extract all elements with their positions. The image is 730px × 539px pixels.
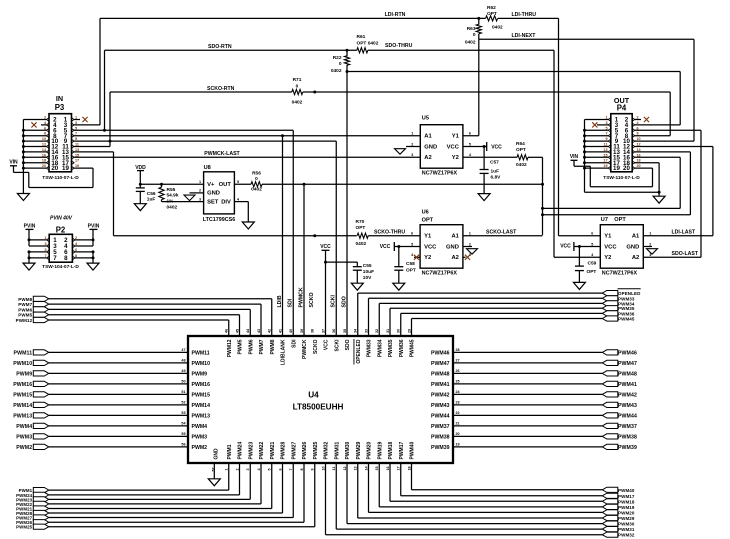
svg-text:R55: R55 — [167, 187, 176, 193]
svg-text:33: 33 — [364, 329, 368, 333]
svg-text:PWM18: PWM18 — [388, 442, 394, 460]
svg-text:0: 0 — [473, 32, 476, 38]
svg-text:12: 12 — [343, 466, 347, 470]
svg-text:PWM43: PWM43 — [618, 403, 637, 409]
svg-text:VIN: VIN — [9, 160, 18, 166]
svg-text:Y1: Y1 — [452, 134, 460, 140]
svg-text:37: 37 — [321, 329, 325, 333]
svg-text:PWM3: PWM3 — [16, 434, 32, 440]
svg-text:43: 43 — [257, 329, 261, 333]
svg-text:PWM10: PWM10 — [13, 361, 32, 367]
svg-text:PWM40: PWM40 — [618, 488, 635, 493]
svg-text:13: 13 — [354, 466, 358, 470]
svg-text:TSW-110-07-L-D: TSW-110-07-L-D — [42, 175, 79, 181]
svg-text:VIN: VIN — [570, 154, 579, 160]
svg-text:22: 22 — [456, 411, 460, 415]
svg-text:PWM13: PWM13 — [192, 413, 211, 419]
svg-text:Y1: Y1 — [604, 234, 612, 240]
svg-text:20: 20 — [456, 432, 460, 436]
svg-text:VCC: VCC — [324, 339, 330, 350]
svg-text:39: 39 — [300, 329, 304, 333]
svg-text:PWM5: PWM5 — [238, 339, 244, 354]
svg-text:GND: GND — [214, 448, 220, 460]
svg-text:PWM48: PWM48 — [618, 371, 637, 377]
svg-text:GND: GND — [424, 144, 437, 150]
svg-text:40: 40 — [289, 329, 293, 333]
svg-text:Y2: Y2 — [452, 155, 459, 161]
svg-text:10V: 10V — [363, 275, 372, 281]
svg-text:R63: R63 — [467, 26, 476, 32]
svg-text:PWM6: PWM6 — [248, 339, 254, 354]
svg-text:49: 49 — [181, 369, 185, 373]
svg-text:PWM3: PWM3 — [192, 434, 208, 440]
svg-text:0: 0 — [339, 61, 342, 67]
svg-text:PWM44: PWM44 — [431, 413, 450, 419]
svg-text:PWM20: PWM20 — [367, 442, 373, 460]
svg-text:1uF: 1uF — [491, 168, 500, 174]
svg-text:PWM38: PWM38 — [618, 434, 637, 440]
svg-text:16: 16 — [386, 466, 390, 470]
svg-text:29: 29 — [407, 329, 411, 333]
svg-text:10: 10 — [321, 466, 325, 470]
svg-text:0402: 0402 — [465, 40, 476, 46]
svg-text:17: 17 — [75, 159, 79, 163]
svg-text:A1: A1 — [451, 234, 459, 240]
svg-text:C57: C57 — [490, 160, 499, 166]
svg-text:PWM22: PWM22 — [259, 442, 265, 460]
svg-text:LDIBLANK: LDIBLANK — [281, 339, 287, 365]
svg-text:A2: A2 — [424, 155, 431, 161]
svg-text:SDO-RTN: SDO-RTN — [208, 44, 232, 50]
svg-text:32: 32 — [375, 329, 379, 333]
svg-text:19: 19 — [62, 165, 69, 172]
svg-text:IN: IN — [56, 94, 63, 103]
svg-text:PWM2: PWM2 — [192, 445, 208, 451]
svg-text:0: 0 — [255, 176, 258, 182]
svg-text:PWM15: PWM15 — [13, 392, 32, 398]
svg-text:PWM44: PWM44 — [618, 413, 637, 419]
svg-text:NC7WZ17P6X: NC7WZ17P6X — [422, 271, 458, 277]
svg-text:C58: C58 — [406, 261, 415, 267]
svg-text:VCC: VCC — [424, 244, 437, 250]
svg-text:2: 2 — [199, 189, 201, 193]
svg-text:23: 23 — [456, 401, 460, 405]
svg-text:PWM17: PWM17 — [618, 494, 635, 499]
svg-text:56: 56 — [181, 443, 185, 447]
svg-text:PWM23: PWM23 — [248, 442, 254, 460]
svg-text:U4: U4 — [308, 391, 319, 400]
svg-text:1: 1 — [411, 132, 413, 136]
svg-text:0402: 0402 — [356, 241, 367, 247]
svg-text:SDO-THRU: SDO-THRU — [385, 43, 413, 49]
svg-text:0402: 0402 — [331, 68, 342, 74]
svg-text:VCC: VCC — [320, 244, 331, 250]
svg-text:0402: 0402 — [492, 25, 503, 31]
svg-text:SCKI: SCKI — [334, 339, 340, 352]
svg-text:5: 5 — [268, 468, 272, 470]
svg-text:35: 35 — [343, 329, 347, 333]
svg-text:OPT: OPT — [587, 269, 597, 275]
svg-text:U6: U6 — [422, 210, 429, 216]
svg-text:53: 53 — [181, 411, 185, 415]
svg-text:NC7WZ17P6X: NC7WZ17P6X — [602, 271, 638, 277]
svg-text:PWM42: PWM42 — [431, 392, 450, 398]
svg-text:1: 1 — [225, 468, 229, 470]
svg-text:OPT: OPT — [516, 147, 526, 153]
svg-text:LTC1799CS6: LTC1799CS6 — [203, 217, 236, 223]
svg-text:NC7WZ17P6X: NC7WZ17P6X — [422, 171, 458, 177]
svg-text:2: 2 — [411, 142, 413, 146]
svg-text:PWM45: PWM45 — [410, 339, 416, 357]
svg-text:LT8500EUHH: LT8500EUHH — [293, 403, 344, 412]
svg-text:1: 1 — [649, 232, 651, 236]
svg-text:51: 51 — [181, 390, 185, 394]
svg-text:6: 6 — [469, 132, 471, 136]
svg-text:2: 2 — [469, 242, 471, 246]
svg-text:41: 41 — [278, 329, 282, 333]
svg-text:R62: R62 — [487, 5, 496, 11]
svg-text:PWM48: PWM48 — [431, 371, 450, 377]
svg-text:PWM30: PWM30 — [345, 442, 351, 460]
svg-text:PWM14: PWM14 — [192, 403, 211, 409]
svg-text:6: 6 — [591, 232, 593, 236]
svg-text:LDIB: LDIB — [277, 295, 283, 307]
svg-text:5: 5 — [411, 242, 413, 246]
svg-text:PWM16: PWM16 — [192, 382, 211, 388]
svg-text:VCC: VCC — [604, 244, 617, 250]
svg-text:PWM7: PWM7 — [259, 339, 265, 354]
svg-text:11: 11 — [332, 467, 336, 471]
svg-text:Y2: Y2 — [424, 255, 431, 261]
svg-text:R22: R22 — [333, 55, 342, 61]
svg-text:25: 25 — [456, 380, 460, 384]
svg-text:PWM37: PWM37 — [431, 424, 450, 430]
svg-text:8: 8 — [300, 468, 304, 470]
svg-text:15: 15 — [375, 466, 379, 470]
svg-text:2: 2 — [649, 242, 651, 246]
svg-text:20: 20 — [623, 165, 630, 172]
svg-text:18: 18 — [407, 466, 411, 470]
svg-text:1: 1 — [469, 232, 471, 236]
svg-text:PWM36: PWM36 — [399, 339, 405, 357]
svg-text:6: 6 — [411, 232, 413, 236]
svg-text:PWM8: PWM8 — [270, 339, 276, 354]
svg-text:17: 17 — [397, 466, 401, 470]
svg-text:VCC: VCC — [447, 144, 460, 150]
svg-text:10uF: 10uF — [363, 269, 374, 275]
svg-text:LDI-LAST: LDI-LAST — [672, 230, 696, 236]
svg-text:OPT: OPT — [406, 268, 416, 274]
svg-text:21: 21 — [456, 422, 460, 426]
svg-text:28: 28 — [456, 348, 460, 352]
svg-text:DIV: DIV — [221, 199, 231, 205]
svg-text:38: 38 — [311, 329, 315, 333]
svg-text:A2: A2 — [451, 255, 458, 261]
svg-text:R70: R70 — [356, 219, 365, 225]
svg-text:OPT: OPT — [422, 218, 434, 224]
svg-text:7: 7 — [53, 255, 57, 262]
svg-text:45: 45 — [235, 329, 239, 333]
svg-text:PWM5: PWM5 — [18, 313, 32, 318]
svg-text:PWM9: PWM9 — [192, 371, 208, 377]
svg-text:VCC: VCC — [380, 244, 391, 250]
svg-text:PWM17: PWM17 — [399, 442, 405, 460]
svg-text:19: 19 — [456, 443, 460, 447]
svg-text:U5: U5 — [422, 116, 429, 122]
svg-text:VDD: VDD — [135, 165, 146, 171]
svg-text:PWM47: PWM47 — [618, 361, 637, 367]
svg-text:27: 27 — [456, 359, 460, 363]
svg-text:PWM33: PWM33 — [367, 339, 373, 357]
svg-text:PWM38: PWM38 — [431, 434, 450, 440]
svg-text:9: 9 — [311, 468, 315, 470]
svg-text:5: 5 — [469, 142, 471, 146]
svg-text:0: 0 — [296, 84, 299, 90]
svg-text:5: 5 — [591, 242, 593, 246]
svg-text:TSW-104-07-L-D: TSW-104-07-L-D — [42, 264, 79, 270]
svg-text:PWM27: PWM27 — [291, 442, 297, 460]
svg-text:48: 48 — [181, 359, 185, 363]
svg-text:PWM31: PWM31 — [334, 442, 340, 460]
svg-text:54.9k: 54.9k — [167, 193, 179, 199]
svg-text:LDI-NEXT: LDI-NEXT — [512, 33, 537, 39]
svg-text:19: 19 — [613, 165, 620, 172]
svg-text:PWM12: PWM12 — [227, 339, 233, 357]
svg-text:SCKO-LAST: SCKO-LAST — [486, 229, 517, 235]
svg-text:2: 2 — [235, 468, 239, 470]
svg-text:OPT: OPT — [487, 11, 497, 17]
svg-text:52: 52 — [181, 401, 185, 405]
svg-text:P4: P4 — [617, 104, 627, 113]
svg-text:PWM25: PWM25 — [313, 442, 319, 460]
svg-text:GND: GND — [446, 244, 459, 250]
svg-text:C56: C56 — [147, 191, 156, 197]
svg-text:0402: 0402 — [516, 162, 527, 168]
svg-text:PWM4: PWM4 — [16, 424, 32, 430]
svg-text:PWMCK-LAST: PWMCK-LAST — [204, 151, 240, 157]
svg-text:LDI-THRU: LDI-THRU — [512, 12, 537, 18]
svg-text:6: 6 — [278, 468, 282, 470]
svg-text:PWM29: PWM29 — [618, 516, 635, 521]
svg-text:SDO: SDO — [341, 296, 347, 307]
svg-text:55: 55 — [181, 432, 185, 436]
svg-text:PWM34: PWM34 — [377, 339, 383, 357]
svg-text:R56: R56 — [252, 170, 261, 176]
svg-text:SCKO: SCKO — [309, 293, 315, 308]
svg-text:R64: R64 — [516, 141, 525, 147]
svg-text:SCKO-RTN: SCKO-RTN — [207, 86, 235, 92]
svg-text:PWM42: PWM42 — [618, 392, 637, 398]
svg-text:PWM39: PWM39 — [431, 445, 450, 451]
svg-text:SDO: SDO — [345, 339, 351, 350]
svg-text:C59: C59 — [588, 260, 597, 266]
svg-text:7: 7 — [289, 468, 293, 470]
svg-text:C55: C55 — [363, 263, 372, 269]
svg-text:SDI: SDI — [288, 298, 294, 307]
svg-text:V+: V+ — [207, 182, 215, 188]
svg-text:U8: U8 — [204, 165, 211, 171]
svg-text:PWM24: PWM24 — [238, 442, 244, 460]
svg-text:PWM19: PWM19 — [618, 505, 635, 510]
svg-text:SCKO: SCKO — [313, 339, 319, 354]
svg-text:U7: U7 — [601, 217, 608, 223]
svg-text:PWM1: PWM1 — [227, 444, 233, 459]
svg-text:VCC: VCC — [491, 145, 502, 151]
svg-text:PWM16: PWM16 — [13, 382, 32, 388]
svg-text:PWM7: PWM7 — [18, 302, 32, 307]
svg-text:OPT: OPT — [614, 217, 626, 223]
svg-text:Y1: Y1 — [424, 234, 432, 240]
svg-text:0402: 0402 — [251, 187, 262, 193]
svg-text:SCKO-THRU: SCKO-THRU — [374, 229, 405, 235]
svg-text:PWM43: PWM43 — [431, 403, 450, 409]
svg-text:1%: 1% — [167, 198, 175, 204]
svg-text:0402: 0402 — [167, 205, 178, 211]
svg-text:8: 8 — [64, 255, 68, 262]
svg-text:PWM2: PWM2 — [16, 445, 32, 451]
svg-text:1: 1 — [199, 180, 201, 184]
svg-text:30: 30 — [397, 329, 401, 333]
svg-text:SDI: SDI — [291, 339, 297, 348]
svg-text:PVIN: PVIN — [88, 224, 100, 230]
svg-text:PWM35: PWM35 — [388, 339, 394, 357]
svg-text:PWM15: PWM15 — [192, 392, 211, 398]
svg-text:PWM8: PWM8 — [18, 297, 32, 302]
svg-text:PWM14: PWM14 — [13, 403, 32, 409]
svg-text:PWM41: PWM41 — [618, 382, 637, 388]
svg-text:P3: P3 — [55, 103, 65, 112]
svg-text:OPT: OPT — [356, 225, 366, 231]
svg-text:PWMCK: PWMCK — [298, 287, 304, 307]
svg-text:PWM20: PWM20 — [618, 510, 635, 515]
svg-text:PWM29: PWM29 — [356, 442, 362, 460]
svg-text:PWM39: PWM39 — [618, 445, 637, 451]
svg-text:OPENLED: OPENLED — [356, 339, 362, 364]
svg-text:P2: P2 — [56, 225, 66, 234]
svg-text:26: 26 — [456, 369, 460, 373]
svg-text:PWM26: PWM26 — [302, 442, 308, 460]
svg-text:20: 20 — [51, 165, 58, 172]
svg-text:PWM9: PWM9 — [16, 371, 32, 377]
svg-text:PWM11: PWM11 — [14, 350, 33, 356]
svg-text:Y2: Y2 — [604, 255, 611, 261]
svg-text:PVIN 40V: PVIN 40V — [50, 216, 73, 222]
svg-text:47: 47 — [181, 348, 185, 352]
svg-text:3: 3 — [411, 153, 413, 157]
svg-text:R71: R71 — [293, 77, 302, 83]
svg-text:PWM47: PWM47 — [431, 361, 450, 367]
svg-text:50: 50 — [181, 380, 185, 384]
svg-text:PWMCK: PWMCK — [302, 339, 308, 359]
svg-text:6.8V: 6.8V — [491, 174, 502, 180]
svg-text:PWM28: PWM28 — [281, 442, 287, 460]
svg-text:OPT 0402: OPT 0402 — [357, 41, 379, 47]
svg-text:A2: A2 — [632, 255, 639, 261]
svg-text:PWM40: PWM40 — [410, 442, 416, 460]
svg-text:PWM25: PWM25 — [16, 525, 33, 530]
svg-text:31: 31 — [386, 329, 390, 333]
svg-text:3: 3 — [246, 468, 250, 470]
svg-text:PWM31: PWM31 — [618, 527, 635, 532]
svg-text:VCC: VCC — [560, 244, 571, 250]
svg-text:LDI-RTN: LDI-RTN — [385, 12, 406, 18]
svg-text:OUT: OUT — [219, 182, 232, 188]
svg-text:PWM30: PWM30 — [618, 522, 635, 527]
svg-text:R61: R61 — [357, 34, 366, 40]
svg-text:PWM32: PWM32 — [618, 533, 635, 538]
svg-text:42: 42 — [268, 329, 272, 333]
svg-text:GND: GND — [626, 244, 639, 250]
svg-text:SCKI: SCKI — [331, 295, 337, 308]
svg-text:PWM19: PWM19 — [377, 442, 383, 460]
svg-text:GND: GND — [207, 191, 220, 197]
svg-text:PWM4: PWM4 — [192, 424, 208, 430]
svg-text:SDO-LAST: SDO-LAST — [672, 251, 699, 257]
svg-text:TSW-110-07-L-D: TSW-110-07-L-D — [603, 175, 640, 181]
svg-text:PWM11: PWM11 — [192, 350, 210, 356]
svg-text:36: 36 — [332, 329, 336, 333]
svg-text:PWM13: PWM13 — [13, 413, 32, 419]
svg-text:PWM46: PWM46 — [431, 350, 450, 356]
svg-text:3: 3 — [199, 197, 201, 201]
svg-text:0402: 0402 — [292, 100, 303, 106]
svg-text:A1: A1 — [424, 134, 432, 140]
svg-text:PVIN: PVIN — [24, 224, 36, 230]
svg-text:PWM21: PWM21 — [270, 442, 276, 460]
svg-text:SET: SET — [207, 199, 219, 205]
svg-text:PWM41: PWM41 — [431, 382, 450, 388]
svg-text:PWM18: PWM18 — [618, 499, 635, 504]
svg-text:PWM6: PWM6 — [18, 307, 32, 312]
svg-text:PWM46: PWM46 — [618, 350, 637, 356]
svg-text:5: 5 — [237, 180, 239, 184]
svg-text:PWM12: PWM12 — [16, 318, 33, 323]
svg-text:PWM45: PWM45 — [618, 317, 635, 322]
svg-text:46: 46 — [225, 329, 229, 333]
svg-text:PWM32: PWM32 — [324, 442, 330, 460]
svg-text:1uF: 1uF — [147, 197, 156, 203]
svg-text:PWM37: PWM37 — [618, 424, 637, 430]
svg-text:PWM10: PWM10 — [192, 361, 211, 367]
svg-text:A1: A1 — [632, 234, 640, 240]
